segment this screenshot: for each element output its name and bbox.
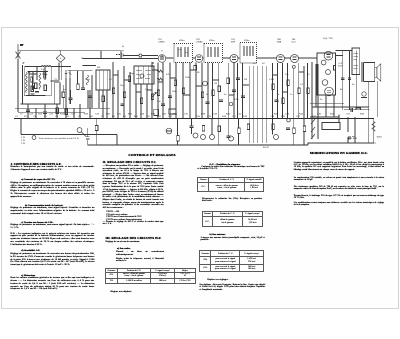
wire v q bbox=[212, 118, 229, 145]
wire v extra bbox=[33, 67, 93, 108]
svg-text:R4: R4 bbox=[66, 116, 70, 118]
wire speaker top bbox=[361, 62, 375, 64]
svg-text:455kc: 455kc bbox=[209, 40, 216, 42]
gang bundle bbox=[249, 66, 266, 143]
loop antenna L1 bbox=[26, 72, 28, 92]
resistor R23 bbox=[56, 108, 59, 114]
resistor R19 bbox=[227, 78, 230, 84]
svg-text:M: M bbox=[20, 45, 22, 47]
svg-text:C15: C15 bbox=[207, 116, 212, 118]
wire v i bbox=[158, 63, 190, 119]
svg-text:12BA6: 12BA6 bbox=[196, 41, 203, 44]
resistor R16 bbox=[298, 88, 301, 94]
capacitor C52 bbox=[351, 108, 352, 112]
svg-text:R30: R30 bbox=[106, 114, 111, 116]
capacitor C27 bbox=[35, 92, 39, 93]
svg-text:2k: 2k bbox=[277, 94, 280, 96]
svg-text:41: 41 bbox=[122, 46, 125, 48]
bus mid bbox=[21, 135, 117, 146]
junction dots bbox=[20, 50, 375, 145]
svg-text:C27: C27 bbox=[71, 114, 76, 116]
trimmer CT1 bbox=[42, 71, 47, 79]
wire to jack bbox=[124, 55, 159, 57]
capacitor C25 bbox=[26, 110, 30, 111]
node circle B bbox=[229, 136, 234, 141]
svg-text:10k: 10k bbox=[285, 74, 289, 76]
svg-text:2M: 2M bbox=[244, 79, 247, 81]
svg-text:R28: R28 bbox=[84, 114, 89, 116]
capacitor C31 bbox=[286, 128, 290, 129]
svg-text:C33: C33 bbox=[140, 114, 145, 116]
filter block box bbox=[352, 48, 360, 75]
capacitor C30 bbox=[227, 136, 231, 137]
svg-text:C9: C9 bbox=[123, 116, 127, 118]
wire v u bbox=[63, 85, 90, 118]
svg-text:R12: R12 bbox=[157, 116, 162, 118]
svg-text:R18: R18 bbox=[243, 116, 248, 118]
svg-text:R26: R26 bbox=[60, 114, 65, 116]
wire h1 bbox=[25, 66, 71, 68]
resistor R47 bbox=[356, 108, 361, 110]
capacitor C28 bbox=[219, 100, 223, 101]
section title CONTROLE ET REGLAGES bbox=[123, 153, 181, 157]
pot P1 bbox=[193, 133, 198, 138]
jack J1 bbox=[139, 54, 142, 57]
svg-text:R44: R44 bbox=[299, 114, 304, 116]
wire v r bbox=[239, 118, 273, 145]
wire v w bbox=[99, 90, 107, 118]
bypass circle bbox=[203, 81, 208, 86]
svg-text:C17: C17 bbox=[232, 116, 237, 118]
wire h6 bbox=[18, 111, 85, 113]
oscillator coil box bbox=[54, 83, 60, 105]
resistor R2 bbox=[77, 84, 80, 90]
tube V4 50B5 bbox=[277, 55, 285, 63]
electrolytic C53 bbox=[347, 136, 355, 139]
svg-text:R24: R24 bbox=[38, 114, 43, 116]
svg-text:R1: R1 bbox=[24, 116, 28, 118]
jack J2 bbox=[166, 128, 172, 134]
svg-text:R40: R40 bbox=[226, 114, 231, 116]
svg-text:B-142: B-142 bbox=[263, 147, 270, 149]
svg-text:C47: C47 bbox=[346, 114, 351, 116]
svg-text:R42: R42 bbox=[274, 114, 279, 116]
svg-text:3 W: 3 W bbox=[21, 143, 26, 145]
svg-text:300Ω: 300Ω bbox=[377, 136, 383, 139]
wire h right1 bbox=[310, 103, 344, 105]
wire v b bbox=[69, 78, 71, 104]
resistor R42 bbox=[177, 136, 180, 142]
svg-text:3Q4 / 7B7: 3Q4 / 7B7 bbox=[323, 38, 334, 40]
svg-text:CV: CV bbox=[54, 79, 58, 81]
svg-text:50: 50 bbox=[206, 94, 209, 96]
wire v speaker bbox=[369, 81, 378, 143]
svg-text:C43: C43 bbox=[285, 114, 290, 116]
capacitor C24 bbox=[31, 94, 35, 95]
svg-text:Toute résistance non spécifiée: Toute résistance non spécifiée est de 1/… bbox=[39, 137, 79, 140]
svg-text:EBF: EBF bbox=[231, 42, 236, 44]
wire v g bbox=[138, 66, 148, 84]
IF transformer MF3 bbox=[240, 43, 257, 64]
svg-text:1n: 1n bbox=[290, 94, 293, 96]
svg-text:T1: T1 bbox=[20, 114, 23, 116]
node circle A bbox=[210, 135, 215, 140]
main bus B+ bbox=[14, 117, 374, 119]
oscillator coil L2 bbox=[39, 73, 41, 89]
wire top bus bbox=[18, 50, 101, 52]
svg-text:C39: C39 bbox=[213, 114, 218, 116]
wire bottom right bbox=[310, 115, 339, 123]
capacitor C22 bbox=[206, 102, 210, 103]
wire v s bbox=[294, 118, 304, 145]
wire h2 bbox=[28, 71, 48, 73]
resistor R60 bbox=[102, 96, 105, 102]
output transformer T1 bbox=[361, 62, 374, 81]
column 3 table 1 bbox=[197, 177, 264, 192]
wire v l bbox=[273, 63, 308, 118]
wire h3 bbox=[51, 80, 60, 82]
resistor R15 bbox=[287, 80, 290, 86]
capacitor C23 bbox=[275, 100, 279, 101]
wire gang shafts bbox=[59, 62, 62, 80]
capacitor C13 bbox=[236, 78, 240, 79]
trimmer CT2 bbox=[65, 70, 72, 78]
resistor R9 bbox=[157, 90, 160, 96]
svg-text:47Ω B1R: 47Ω B1R bbox=[348, 137, 357, 140]
pot P2 bbox=[201, 135, 206, 140]
IF transformer MF2 bbox=[204, 44, 223, 63]
wire left drop bbox=[20, 118, 22, 134]
wire v e bbox=[99, 70, 107, 90]
svg-text:6-8: 6-8 bbox=[41, 69, 45, 71]
wire right edge bbox=[373, 118, 375, 143]
loudspeaker LS bbox=[375, 64, 381, 81]
column 3 table 2 bbox=[202, 211, 263, 227]
resistor R51 bbox=[31, 86, 34, 92]
svg-text:R48: R48 bbox=[360, 114, 365, 116]
coil L3 bbox=[87, 75, 89, 85]
svg-text:S2: S2 bbox=[262, 63, 265, 65]
resistor R56 bbox=[218, 126, 221, 132]
resistor R53 zig bbox=[157, 78, 163, 80]
antenna M bbox=[16, 44, 24, 59]
wire v right fill bbox=[103, 90, 107, 118]
wire v p bbox=[177, 118, 179, 145]
svg-text:C7: C7 bbox=[101, 116, 105, 118]
svg-text:3n: 3n bbox=[320, 99, 323, 101]
resistor R41 bbox=[95, 126, 98, 131]
resistor R8 bbox=[151, 94, 154, 100]
electrolytic C51 bbox=[86, 128, 89, 140]
front box bbox=[24, 67, 51, 96]
resistor R6 bbox=[123, 92, 126, 98]
wire grid line bbox=[82, 57, 158, 59]
capacitor C33 bbox=[88, 96, 92, 97]
svg-text:R16: R16 bbox=[222, 116, 227, 118]
switch S2 arrows bbox=[311, 119, 315, 139]
tube V2 12BA6 bbox=[195, 55, 203, 63]
wire v right3 bbox=[312, 62, 316, 107]
resistor R24 bbox=[65, 109, 68, 115]
svg-text:C41: C41 bbox=[237, 114, 242, 116]
tuning gang indicator bbox=[56, 54, 65, 62]
svg-text:1 W: 1 W bbox=[21, 137, 26, 139]
node E bbox=[229, 102, 233, 106]
svg-text:50uF: 50uF bbox=[338, 66, 344, 68]
wire tube connects bbox=[166, 51, 352, 59]
resistor R12 bbox=[218, 86, 221, 92]
node circle D bbox=[287, 119, 290, 122]
svg-text:+: + bbox=[365, 89, 367, 91]
svg-text:100k: 100k bbox=[172, 91, 178, 93]
wire top right h bbox=[344, 109, 369, 111]
label B1 bbox=[23, 62, 25, 63]
svg-text:25: 25 bbox=[307, 74, 310, 76]
svg-text:C35: C35 bbox=[162, 114, 167, 116]
legend circle bbox=[32, 136, 36, 140]
svg-text:455kc: 455kc bbox=[244, 40, 251, 42]
svg-text:6C4: 6C4 bbox=[292, 42, 297, 44]
capacitor C8 bbox=[168, 96, 172, 97]
resistor R11 bbox=[201, 92, 204, 98]
capacitor C32 bbox=[69, 98, 73, 99]
svg-text:R38: R38 bbox=[201, 114, 206, 116]
pot arrow bbox=[152, 92, 157, 97]
wire h5 bbox=[15, 107, 110, 109]
tube V7 3S4 bottom bbox=[325, 87, 334, 96]
resistor R20 bbox=[282, 98, 285, 104]
wire left vertical 2 bbox=[22, 65, 24, 104]
svg-text:S1: S1 bbox=[253, 63, 256, 65]
svg-text:68: 68 bbox=[197, 72, 200, 74]
resistor R22b bbox=[44, 85, 47, 91]
wire v d bbox=[82, 71, 84, 88]
resistor R1 bbox=[35, 83, 38, 89]
wire stubs mid bbox=[113, 70, 304, 95]
svg-text:R36: R36 bbox=[173, 114, 178, 116]
svg-text:R8: R8 bbox=[112, 116, 116, 118]
svg-text:C5: C5 bbox=[78, 116, 82, 118]
resistor R17 bbox=[128, 76, 131, 82]
tiny schematic labels bbox=[15, 38, 382, 149]
pin node P3 bbox=[322, 80, 328, 86]
switch box S1 bbox=[154, 109, 159, 115]
svg-text:C45: C45 bbox=[317, 114, 322, 116]
resistor R46 bbox=[303, 126, 306, 132]
svg-text:6BA: 6BA bbox=[277, 41, 282, 44]
wire v m bbox=[312, 64, 318, 139]
svg-text:C29: C29 bbox=[95, 114, 100, 116]
jack circle J3 bbox=[140, 74, 144, 78]
resistor R14 bbox=[272, 84, 275, 90]
wire v n bbox=[326, 51, 356, 118]
wire v a bbox=[65, 78, 67, 104]
tube V6 3Q4 top bbox=[324, 51, 333, 60]
svg-text:C31: C31 bbox=[117, 114, 122, 116]
resistor R21 bbox=[307, 88, 310, 94]
svg-text:B+: B+ bbox=[352, 84, 355, 86]
IF transformer MF1 bbox=[174, 44, 193, 63]
resistor R30 bbox=[334, 66, 336, 71]
tube V3 12AT6 bbox=[230, 55, 238, 63]
wire h8 bbox=[83, 65, 97, 67]
svg-text:C25: C25 bbox=[49, 114, 54, 116]
resistor R40 zigzag bbox=[372, 122, 375, 132]
electrolytic C50 bbox=[361, 92, 367, 98]
svg-text:0,5M: 0,5M bbox=[269, 79, 274, 81]
svg-text:10n: 10n bbox=[157, 101, 161, 103]
bus bottom right bbox=[308, 143, 374, 145]
rf box bbox=[96, 70, 110, 90]
capacitor C48 bbox=[348, 78, 351, 79]
small box S3 bbox=[169, 109, 176, 114]
svg-text:R2: R2 bbox=[44, 116, 48, 118]
pin node P1 bbox=[321, 60, 326, 65]
svg-text:MF: MF bbox=[97, 67, 101, 69]
resistor R58 bbox=[247, 124, 250, 130]
wire v o bbox=[88, 118, 97, 145]
resistor R55 bbox=[212, 90, 215, 96]
capacitor C47 bbox=[341, 78, 344, 79]
wire diamond stem bbox=[60, 51, 62, 55]
svg-text:C3: C3 bbox=[55, 116, 59, 118]
resistor R50 bbox=[31, 77, 34, 82]
wire v h bbox=[136, 62, 152, 118]
capacitor C12 bbox=[232, 90, 236, 91]
capacitor C20 bbox=[121, 104, 125, 105]
resistor R10 bbox=[182, 88, 185, 94]
wire speaker bottom bbox=[361, 80, 375, 82]
wire v t bbox=[348, 117, 355, 143]
svg-text:12BE6: 12BE6 bbox=[158, 42, 165, 44]
resistor R54 bbox=[194, 65, 197, 70]
resistor R45 bbox=[293, 128, 296, 134]
svg-text:4,7: 4,7 bbox=[109, 79, 113, 81]
wire v k bbox=[213, 63, 243, 119]
svg-text:R20: R20 bbox=[281, 116, 286, 118]
resistor R59 bbox=[62, 92, 65, 98]
wire v j bbox=[196, 63, 208, 119]
svg-text:R32: R32 bbox=[128, 114, 133, 116]
svg-text:0,1: 0,1 bbox=[300, 84, 304, 86]
tube V5 35W4 bbox=[291, 55, 299, 63]
svg-text:C21: C21 bbox=[296, 116, 301, 118]
svg-text:C19: C19 bbox=[270, 116, 275, 118]
wire h7 bbox=[68, 70, 93, 72]
svg-text:C13: C13 bbox=[168, 116, 173, 118]
wire v left fill bbox=[28, 104, 80, 118]
label box voir reglage bbox=[322, 123, 340, 130]
wire v c bbox=[77, 71, 79, 84]
bus bottom bbox=[88, 144, 309, 146]
resistor R43 bbox=[202, 126, 205, 132]
tube V1 12BE6 bbox=[158, 55, 166, 63]
pilot lamp PL bbox=[77, 128, 86, 137]
wire h right2 bbox=[312, 106, 369, 108]
resistor R18 bbox=[174, 80, 177, 86]
capacitor C4 bbox=[81, 88, 85, 89]
wire h4 bbox=[21, 103, 60, 105]
wire left vertical bbox=[17, 59, 19, 113]
svg-text:osc: osc bbox=[63, 89, 67, 91]
svg-text:455kc: 455kc bbox=[179, 40, 186, 42]
svg-text:C1: C1 bbox=[15, 116, 19, 118]
grid cap node bbox=[292, 65, 295, 68]
resistor R7 bbox=[140, 98, 143, 104]
svg-text:5n: 5n bbox=[224, 94, 227, 96]
svg-text:470k: 470k bbox=[234, 99, 240, 101]
resistor R52 zig bbox=[157, 70, 163, 72]
capacitor C29 bbox=[241, 96, 245, 97]
wire mesh left bbox=[26, 67, 45, 96]
resistor R5 bbox=[112, 88, 115, 94]
capacitor C21 bbox=[161, 104, 165, 105]
svg-text:1M: 1M bbox=[214, 83, 217, 85]
pin node P2 bbox=[326, 70, 331, 75]
svg-text:C37: C37 bbox=[184, 114, 189, 116]
column 3 table 3 bbox=[199, 250, 264, 272]
output module box bbox=[317, 53, 336, 95]
svg-text:R6: R6 bbox=[90, 116, 94, 118]
node circle C bbox=[274, 135, 279, 140]
capacitor C45 bbox=[190, 118, 194, 134]
capacitor C1 block bbox=[101, 51, 121, 58]
resistor R44 bbox=[238, 128, 241, 134]
wire v f bbox=[113, 62, 130, 118]
svg-text:R14: R14 bbox=[196, 116, 201, 118]
svg-text:R10: R10 bbox=[134, 116, 139, 118]
svg-text:2 W: 2 W bbox=[21, 140, 26, 142]
af box bbox=[134, 66, 154, 84]
capacitor C26 bbox=[43, 112, 47, 113]
resistor R57 bbox=[272, 124, 275, 130]
svg-text:150p: 150p bbox=[85, 79, 91, 81]
svg-text:C11: C11 bbox=[146, 116, 151, 118]
column 2 table bbox=[105, 268, 196, 284]
